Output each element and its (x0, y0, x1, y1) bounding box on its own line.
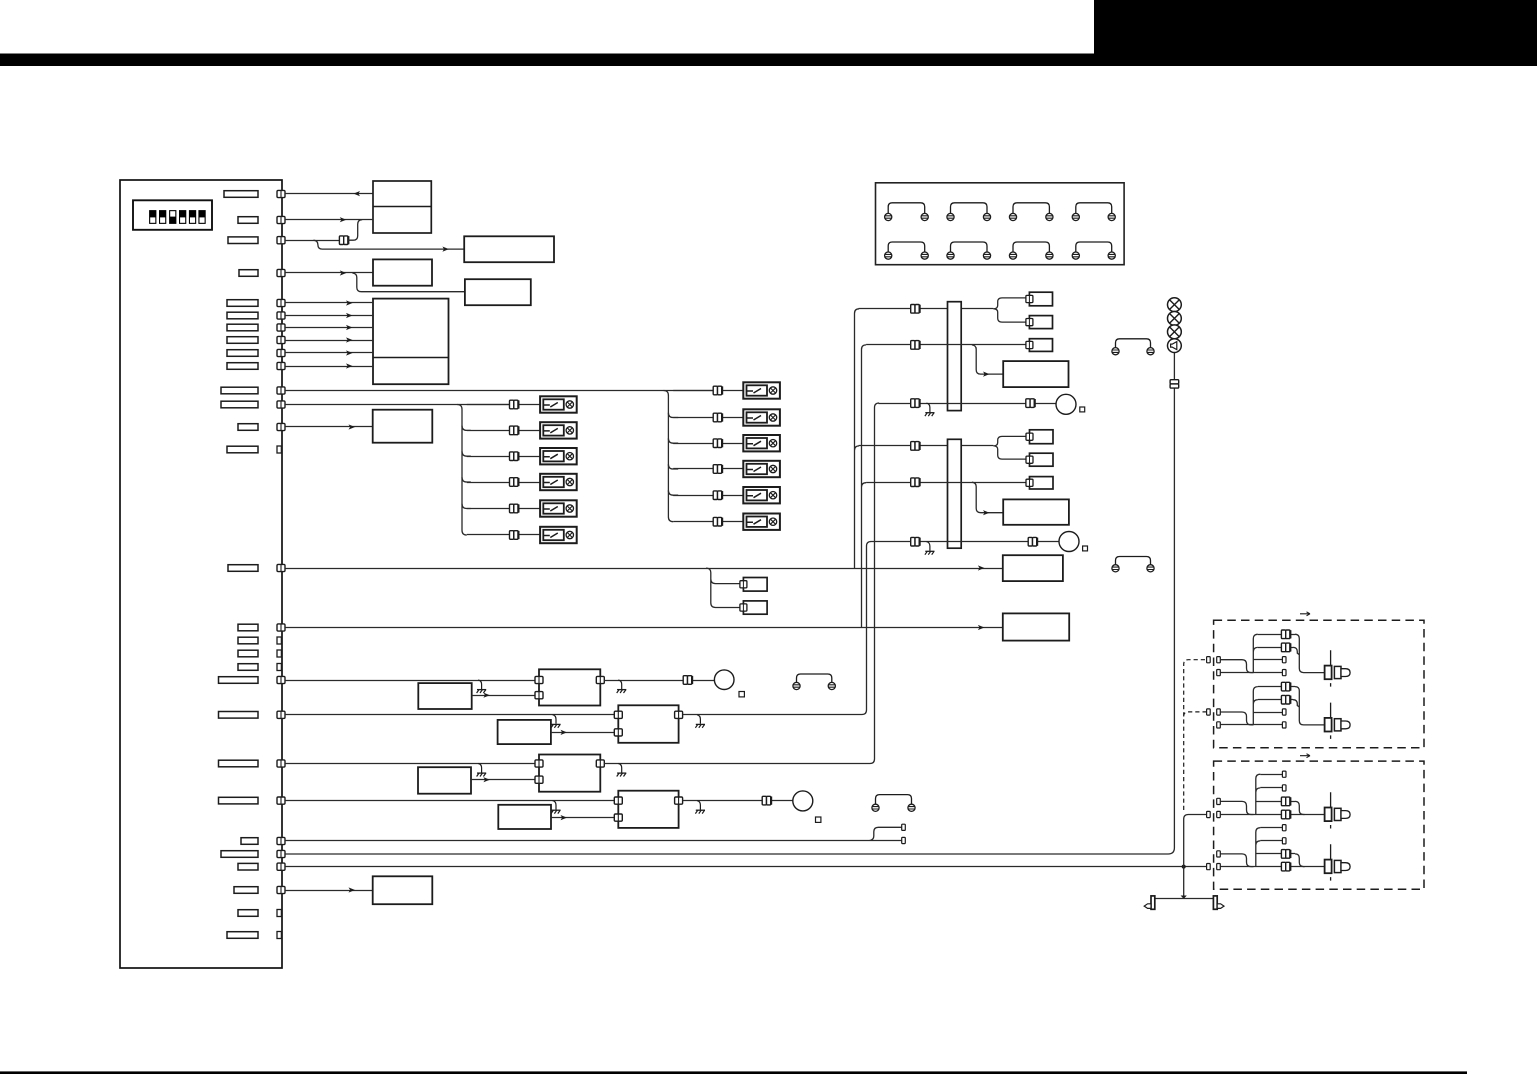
inline connector indicator feed 6 right (1028, 537, 1037, 546)
wire pin20 to module L (285, 680, 536, 682)
reference square near L3 (1080, 407, 1085, 412)
jack unit 1 channel A RCA jack (1325, 650, 1351, 686)
relay coil box b (1029, 316, 1052, 329)
relay K1-2 with indicator lamp (540, 422, 577, 438)
module O box (539, 755, 600, 792)
jack unit 1 channel A hot rail 1 (1258, 634, 1295, 636)
connector CN pin 29 terminal (unwired) on unit edge (277, 932, 281, 939)
lamp-relay group 2 row 1 wire (673, 390, 743, 392)
jumper link J1-1 (885, 203, 929, 221)
junction dot on pin26 trunk (1182, 865, 1186, 869)
ground stub on indicator feed 3 (925, 403, 935, 416)
strip feed 2 branch to module R (972, 345, 1003, 374)
jack unit 1 channel B RCA jack (1325, 703, 1351, 739)
ground stub on pin20 wire (477, 680, 487, 693)
terminal pin TP2 (902, 837, 906, 843)
connector CN pin 14 terminal (unwired) on unit edge (277, 446, 281, 453)
relay coil box c (1029, 339, 1052, 352)
jack unit 1 channel B outer input pin (1207, 709, 1211, 715)
inline connector relay group 2 row 6 (713, 517, 722, 526)
connector CN pin 7 bar (227, 324, 258, 331)
connector CN pin 27 terminal on unit edge (277, 886, 285, 893)
connector strip CN-B (vertical) (948, 439, 962, 548)
lamp-relay group 2 row 4 wire (673, 468, 743, 470)
jumper link J1-2 (947, 203, 991, 221)
dashed alternate feed riser (1184, 660, 1207, 810)
wire pin24 to terminal pins (285, 827, 901, 840)
jack unit 1 channel A shield rail end pin 1 (1282, 657, 1286, 663)
motor/indicator M1 circle (714, 670, 734, 690)
connector CN pin 14 bar (227, 446, 258, 453)
connector CN pin 2 terminal on unit edge (277, 216, 285, 223)
connector CN pin 11 bar (221, 387, 258, 394)
module Q output pin (675, 797, 683, 804)
jack unit 1 channel A shield rail stub 1 (1253, 659, 1282, 661)
warning lamp 2 (1168, 312, 1182, 326)
ground bar wire (1155, 898, 1214, 900)
lamp-relay group 1 row 1 wire (467, 404, 540, 406)
warning lamp 1 (1168, 298, 1182, 312)
connector CN pin 25 terminal on unit edge (277, 850, 285, 857)
lamp-relay group 1 row 6 wire (467, 534, 540, 536)
jack unit 2 channel B inner input pin a (1217, 851, 1221, 857)
jack unit 2 channel B shield rail end pin 2 (1282, 838, 1286, 844)
relay K1-3 with indicator lamp (540, 448, 577, 464)
inline connector relay group 2 row 4 (713, 465, 722, 474)
jack unit 2 channel B inline connector rail 4 (1281, 862, 1290, 871)
jack unit 1 channel B shield rail stub 2 (1253, 724, 1282, 726)
jack unit 1 channel B inner input pin b (1217, 722, 1221, 728)
connector CN pin 24 terminal on unit edge (277, 837, 285, 844)
relay K2-4 with indicator lamp (743, 461, 780, 477)
wire module O output rising to indicator feed 3 (604, 403, 879, 764)
connector CN pin 29 bar (227, 932, 258, 939)
module L input pin 2 (535, 692, 543, 699)
jack unit 1 channel A inline connector rail 2 (1281, 643, 1290, 652)
wire pin2 to module A lower section (285, 219, 373, 221)
connector CN pin 3 terminal on unit edge (277, 237, 285, 244)
jumper link J2-2 (947, 242, 991, 259)
wire pin13 to module I (285, 426, 373, 428)
module O input pin 1 (535, 760, 543, 767)
jack unit 1 channel A inline connector rail 1 (1281, 630, 1290, 639)
lamp-relay group 2 row 3 wire (673, 443, 743, 445)
wire pin9 to module F (285, 352, 373, 354)
lamp-relay group 2 vertical bus (664, 391, 679, 522)
connector CN pin 16 bar (238, 624, 258, 631)
direction arrow above jack unit 2 (1300, 754, 1310, 758)
ground stub on pin21 wire (551, 715, 561, 728)
ground terminal lug left (1144, 896, 1155, 909)
inline connector relay group 1 row 3 (510, 452, 519, 461)
module E box (465, 279, 531, 305)
jack unit 2 channel B inner input pin b (1217, 864, 1221, 870)
ground terminal lug right (1213, 896, 1224, 909)
relay coil box e (1030, 453, 1054, 466)
output jack unit 1 dashed enclosure (1214, 620, 1424, 748)
module D box (373, 259, 432, 285)
ground stub on module L output (617, 680, 627, 693)
module A two-section box (373, 181, 431, 233)
module J box (373, 876, 433, 904)
wire pin1 to module A (arrow left) (285, 193, 373, 195)
jack unit 2 channel A inline connector rail 4 (1281, 810, 1290, 819)
connector CN pin 4 bar (239, 270, 258, 277)
connector CN pin 20 terminal on unit edge (277, 676, 285, 683)
jack unit 2 channel B outer input pin (1207, 864, 1211, 870)
connector CN pin 22 terminal on unit edge (277, 760, 285, 767)
page frame: top-right black title block (1094, 0, 1537, 66)
module O output pin (596, 760, 604, 767)
ground stub on module O output (617, 764, 627, 777)
connector CN pin 5 bar (227, 300, 258, 307)
plug connector CN-b (743, 601, 767, 614)
indicator lamp circle L3 (1056, 394, 1076, 414)
connector CN pin 6 bar (227, 312, 258, 319)
connector CN pin 26 terminal on unit edge (277, 863, 285, 870)
relay K2-3 with indicator lamp (743, 435, 780, 451)
wire module P output to module Q (551, 817, 615, 819)
jumper link J2-1 (885, 242, 929, 259)
jack unit 1 channel A inner input pin a (1217, 657, 1221, 663)
jack unit 2 channel A RCA jack (1325, 792, 1351, 828)
jack unit 1 channel B shield rail end pin 2 (1282, 722, 1286, 728)
module B box (464, 236, 554, 262)
jack unit 1 channel A signal wire from pin b (1220, 672, 1253, 674)
indicator feed wire 3 (879, 403, 1057, 405)
jack unit 2 channel B shield rail end pin 1 (1282, 825, 1286, 831)
wire pin27 to module J (285, 890, 373, 892)
relay K1-1 with indicator lamp (540, 396, 577, 412)
jack unit 2 channel A signal wire from pin a (1220, 801, 1253, 814)
connector CN pin 23 bar (219, 797, 259, 804)
jumper link J1-4 (1072, 203, 1115, 221)
relay coil box f (1030, 477, 1054, 489)
reference square near M2 (816, 817, 821, 822)
connector CN pin 10 bar (227, 363, 258, 370)
connector CN pin 15 terminal on unit edge (277, 564, 285, 571)
module M box (498, 720, 551, 744)
connector CN pin 18 terminal (unwired) on unit edge (277, 650, 281, 657)
wire pin3 branch down to module B (314, 240, 465, 249)
relay K2-6 with indicator lamp (743, 514, 780, 530)
connector CN pin 18 bar (238, 650, 258, 657)
wire pin26 trunk to output jacks (285, 866, 1207, 868)
inline connector relay group 1 row 6 (510, 531, 519, 540)
connector CN pin 13 terminal on unit edge (277, 423, 285, 430)
junction arrowhead at ground bar (1181, 896, 1187, 899)
wire module G output to module L (472, 695, 536, 697)
connector CN pin 9 terminal on unit edge (277, 349, 285, 356)
wire pin3 trunk (285, 240, 340, 242)
reference square near L6 (1083, 546, 1088, 551)
connector CN pin 10 terminal on unit edge (277, 362, 285, 369)
jack unit 2 channel B RCA jack (1325, 844, 1351, 880)
connector CN pin 9 bar (227, 350, 258, 357)
wire pin12 feed to lamp-relay group 1 (285, 404, 510, 406)
indicator feed wire 6 (871, 541, 1059, 543)
relay K2-1 with indicator lamp (743, 382, 780, 398)
jack unit 1 channel A shield rail end pin 2 (1282, 670, 1286, 676)
module H box (418, 767, 471, 794)
wire pin5 to module F (285, 302, 373, 304)
connector CN pin 17 terminal (unwired) on unit edge (277, 637, 281, 644)
inline connector relay group 2 row 5 (713, 491, 722, 500)
wire pin8 to module F (285, 340, 373, 342)
module N input pin 2 (614, 729, 622, 736)
wire pin11 feed to lamp-relay group 2 (285, 390, 714, 392)
module T box (1003, 555, 1063, 581)
jack unit 2 channel B inline connector rail 3 (1281, 850, 1290, 859)
jack unit 1 channel A signal wire from pin a (1220, 660, 1253, 673)
jack unit 2 channel A shield rail 1 (1260, 774, 1282, 776)
inline connector relay group 1 row 5 (510, 504, 519, 513)
jack unit 2 channel A hot rail 3 (1256, 801, 1295, 803)
wire module Q output to motor M2 (683, 800, 793, 802)
jack unit 1 channel B inner input pin a (1217, 709, 1221, 715)
module U box (1003, 613, 1069, 640)
jack unit 1 channel A inner input pin b (1217, 670, 1221, 676)
jack unit 1 channel A junction riser bar (1253, 634, 1258, 672)
lamp-relay group 2 row 6 wire (673, 521, 743, 523)
lamp-relay group 1 row 3 wire (467, 456, 540, 458)
jumper link J6 (1112, 557, 1154, 572)
strip feed wire 4 (859, 445, 994, 447)
module L input pin 1 (535, 676, 543, 683)
branch from power trunk down to plug connectors (706, 568, 739, 608)
inline connector strip feed 4 (911, 442, 920, 451)
jumper link J1-3 (1009, 203, 1053, 221)
module I box (373, 410, 433, 443)
connector CN pin 28 terminal (unwired) on unit edge (277, 910, 281, 917)
ground stub on pin22 wire (477, 764, 487, 777)
strip feed 4 fork to relays d/e (993, 436, 1026, 459)
connector CN pin 19 bar (238, 664, 258, 671)
relay K2-5 with indicator lamp (743, 487, 780, 503)
module R box (1003, 361, 1068, 387)
jumper link J2-4 (1072, 242, 1115, 259)
wire pin10 to module F (285, 366, 373, 368)
jack unit 1 channel B hot rail 1 (1258, 686, 1295, 688)
riser from power trunk to strip feeds 1 and 4 (855, 309, 860, 568)
inline connector relay group 2 row 3 (713, 439, 722, 448)
inline connector on module Q output (762, 796, 771, 805)
jack unit 1 channel B signal wire from pin b (1220, 724, 1253, 726)
module N box (618, 705, 678, 743)
jack unit 2 channel B hot rail 3 (1256, 853, 1295, 855)
lamp-relay group 2 row 2 wire (673, 417, 743, 419)
jumper link J4 (872, 795, 915, 812)
connector CN pin 20 bar (219, 677, 259, 684)
ground stub on module N output (695, 715, 705, 728)
jack unit 2 channel B shield rail 2 (1260, 840, 1282, 842)
wire pin7 to module F (285, 327, 373, 329)
connector CN pin 21 terminal on unit edge (277, 711, 285, 718)
wire module N output rising to indicator feed 6 (683, 542, 872, 715)
wire module M output to module N (551, 732, 615, 734)
jack unit 2 channel A junction riser bar (1256, 774, 1261, 814)
connector CN pin 1 bar (224, 191, 258, 198)
jack unit 2 channel B signal wire from pin a (1220, 854, 1253, 867)
connector CN pin 8 terminal on unit edge (277, 336, 285, 343)
jack unit 2 channel A inner input pin b (1217, 811, 1221, 817)
strip feed wire 1 (859, 308, 994, 310)
jack unit 2 channel A main signal rail (1220, 814, 1324, 816)
jack unit 2 channel A inner input pin a (1217, 798, 1221, 804)
motor/indicator M2 circle (793, 791, 813, 811)
buzzer symbol (1168, 339, 1182, 353)
relay coil box a (1029, 292, 1052, 306)
module L output pin (596, 676, 604, 683)
connector CN pin 16 terminal on unit edge (277, 624, 285, 631)
connector CN pin 23 terminal on unit edge (277, 797, 285, 804)
riser from trunk 16 to strip feeds 2 and 5 (862, 345, 867, 628)
lamp-relay group 1 row 5 wire (467, 508, 540, 510)
connector CN pin 22 bar (219, 760, 259, 767)
jack unit 1 channel B inline connector rail 2 (1281, 695, 1290, 704)
relay K1-4 with indicator lamp (540, 474, 577, 490)
connector CN pin 15 bar (228, 565, 258, 572)
direction arrow above jack unit 1 (1300, 612, 1310, 616)
connector CN pin 28 bar (238, 910, 258, 917)
jack unit 2 channel A shield rail 2 (1260, 787, 1282, 789)
connector CN pin 7 terminal on unit edge (277, 324, 285, 331)
jack unit 2 channel A right drop to jack (1295, 801, 1305, 814)
module Q input pin 1 (614, 797, 622, 804)
inline connector relay group 1 row 1 (510, 400, 519, 409)
DIP switch S1 (6 positions, switch 3 up) (133, 200, 212, 230)
strip feed 1 fork to relays a/b (993, 298, 1026, 322)
relay K2-2 with indicator lamp (743, 409, 780, 425)
connector CN pin 6 terminal on unit edge (277, 312, 285, 319)
lamp-relay group 2 row 5 wire (673, 495, 743, 497)
jack unit 1 channel A hot rail 2 (1258, 647, 1293, 649)
terminal pin TP1 (902, 824, 906, 830)
connector CN pin 1 terminal on unit edge (277, 190, 285, 197)
inline connector relay group 1 row 2 (510, 426, 519, 435)
connector CN pin 2 bar (238, 217, 258, 224)
jack unit 1 channel A outer input pin (1207, 657, 1211, 663)
module L box (539, 669, 600, 705)
module N output pin (675, 711, 683, 718)
wire module L output to motor M1 (604, 680, 714, 682)
inline connector on pin3 wire (339, 236, 348, 245)
wire module H output to module O (471, 779, 536, 781)
module Q input pin 2 (614, 814, 622, 821)
plug connector CN-a (743, 578, 767, 592)
lamp-relay group 1 row 2 wire (467, 430, 540, 432)
jack unit 2 channel B shield rail 1 (1260, 827, 1282, 829)
module S box (1003, 499, 1069, 524)
module O input pin 2 (535, 776, 543, 783)
inline connector indicator feed 3 right (1026, 399, 1035, 408)
wire pin25 rising to lamp chain (285, 353, 1174, 855)
inline connector strip feed 2 (911, 341, 920, 350)
inline connector indicator feed 3 left (911, 399, 920, 408)
wire pin15 power trunk to module T (285, 568, 1003, 570)
relay K1-5 with indicator lamp (540, 500, 577, 516)
jack unit 1 channel B right drop to jack (1293, 687, 1325, 725)
inline connector indicator feed 6 left (911, 537, 920, 546)
wire pin3 connector to junction riser into module A feed (348, 220, 362, 241)
strip feed wire 5 (866, 482, 1026, 484)
wire pin21 to module N (285, 714, 618, 716)
module G box (418, 683, 471, 709)
inline connector on module L output (683, 676, 692, 685)
connector CN pin 12 bar (221, 401, 258, 408)
connector CN pin 4 terminal on unit edge (277, 269, 285, 276)
strip feed 5 branch to module S (972, 482, 1003, 513)
connector CN pin 5 terminal on unit edge (277, 299, 285, 306)
relay K1-6 with indicator lamp (540, 527, 577, 543)
connector CN pin 21 bar (219, 712, 259, 719)
page frame: top black banner bar (0, 54, 1537, 67)
ground stub on pin23 wire (551, 801, 561, 814)
inline connector relay group 1 row 4 (510, 478, 519, 487)
warning lamp 3 (1168, 325, 1182, 339)
ground stub on indicator feed 6 (925, 542, 935, 555)
output jack unit 2 dashed enclosure (1214, 761, 1424, 889)
jack unit 2 channel B junction riser bar (1256, 828, 1261, 867)
inline connector on lamp chain (vertical) (1170, 380, 1179, 388)
jack unit 1 channel A shield rail stub 2 (1253, 672, 1282, 674)
wire pin16 trunk to module U (285, 627, 1003, 629)
connector strip CN-A (vertical) (948, 302, 962, 411)
connector CN pin 3 bar (228, 237, 258, 244)
drop from pin26 trunk to ground bar (1183, 867, 1185, 896)
module N input pin 1 (614, 711, 622, 718)
connector CN pin 25 bar (221, 851, 258, 858)
jack unit 1 channel B junction riser bar (1253, 687, 1258, 725)
reference square near M1 (739, 692, 744, 697)
jack unit 2 channel A inline connector rail 3 (1281, 797, 1290, 806)
jack unit 1 channel B shield rail stub 1 (1253, 712, 1282, 714)
jack unit 1 channel B signal wire from pin a (1220, 712, 1253, 725)
lamp-relay group 1 row 4 wire (467, 482, 540, 484)
jack unit 2 channel B right drop to jack (1295, 854, 1305, 867)
connector CN pin 27 bar (234, 887, 258, 894)
module P box (498, 805, 551, 829)
jack unit 1 channel B shield rail end pin 1 (1282, 709, 1286, 715)
connector CN pin 26 bar (238, 863, 258, 870)
jack unit 2 channel A shield rail end pin 1 (1282, 771, 1286, 777)
jack unit 2 channel B main signal rail (1220, 866, 1324, 868)
inline connector relay group 2 row 2 (713, 413, 722, 422)
ground stub on module Q output (695, 801, 705, 814)
jumper link J5 (1112, 339, 1154, 355)
main unit U1 outline box (120, 180, 282, 968)
jack unit 2 channel A outer input pin (1207, 811, 1211, 817)
wire pin23 to module Q (285, 800, 618, 802)
module F two-section box (373, 299, 449, 385)
connector CN pin 11 terminal on unit edge (277, 387, 285, 394)
jack unit 1 channel B hot rail 2 (1258, 699, 1293, 701)
jumper link bank enclosure (876, 183, 1125, 265)
riser solid from pin26 trunk to jack feed (1184, 815, 1207, 867)
inline connector relay group 2 row 1 (713, 386, 722, 395)
wire pin6 to module F (285, 315, 373, 317)
relay coil box d (1030, 430, 1054, 444)
connector CN pin 12 terminal on unit edge (277, 401, 285, 408)
connector CN pin 24 bar (241, 838, 258, 845)
wire pin4 branch down to module E (352, 273, 465, 292)
page frame: bottom rule line (0, 1071, 1467, 1074)
connector CN pin 8 bar (227, 337, 258, 344)
wire pin22 to module O (285, 763, 539, 765)
jumper link J2-3 (1009, 242, 1053, 259)
strip feed wire 2 (866, 344, 1026, 346)
jumper link J3 (793, 674, 836, 690)
